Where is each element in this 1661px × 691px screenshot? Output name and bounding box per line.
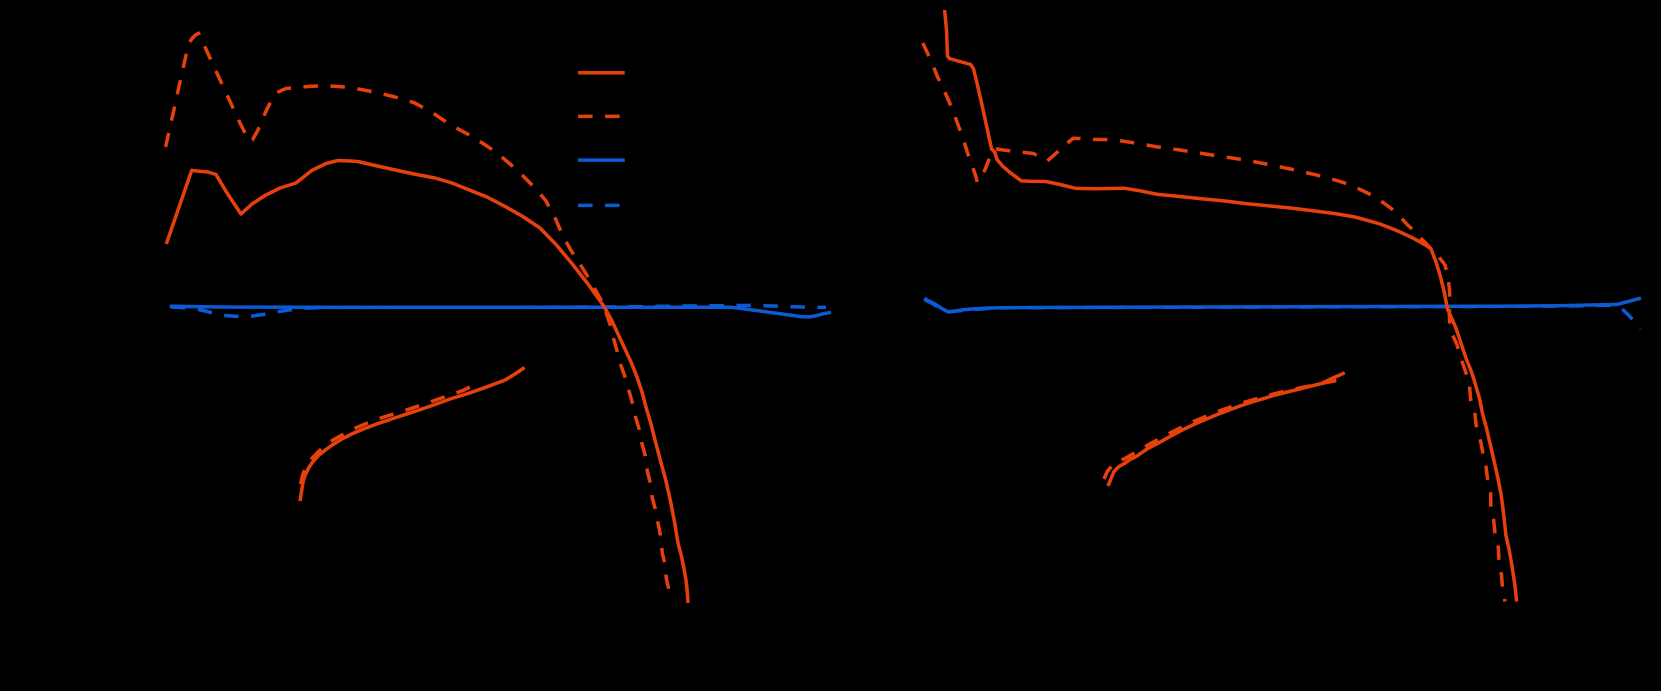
legend blue dashed [578, 204, 625, 208]
legend red solid [578, 71, 625, 75]
R lower red dashed [1104, 380, 1338, 479]
L red solid upper [166, 161, 688, 604]
L lower red solid [300, 368, 525, 502]
R red dashed upper [923, 43, 1505, 602]
L lower red dashed [301, 383, 479, 484]
R blue dashed [924, 300, 1640, 330]
legend red dashed [578, 115, 625, 119]
R red solid upper [945, 10, 1517, 602]
R lower red solid [1108, 373, 1345, 486]
LEFT PANEL [166, 33, 831, 603]
L blue dashed [171, 305, 826, 316]
R blue solid [924, 298, 1641, 312]
L blue solid [170, 306, 831, 317]
legend blue solid [578, 158, 625, 162]
L red dashed upper [166, 33, 670, 592]
RIGHT PANEL [923, 10, 1641, 602]
